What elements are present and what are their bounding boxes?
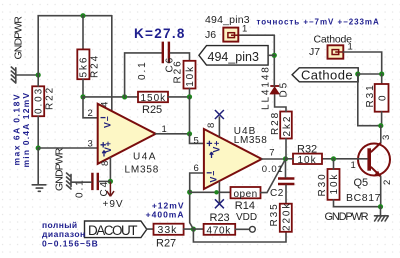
svg-text:Q5: Q5 xyxy=(354,177,369,189)
wire U4A pin8 stub xyxy=(109,158,111,182)
open circle terminal xyxy=(250,226,256,232)
svg-text:R22: R22 xyxy=(45,86,56,110)
svg-text:D5: D5 xyxy=(279,81,290,98)
svg-text:R31: R31 xyxy=(365,83,376,107)
svg-text:BC817: BC817 xyxy=(346,192,381,204)
wire U4B pin8 stub xyxy=(218,117,220,136)
junction V+ node xyxy=(108,179,113,184)
wire R31 bottom xyxy=(381,112,383,126)
svg-text:0.1: 0.1 xyxy=(75,178,86,198)
svg-text:1: 1 xyxy=(351,160,356,171)
wire fb rail to R14 xyxy=(190,191,231,193)
resistor R32 xyxy=(293,144,322,166)
transistor Q5 xyxy=(346,135,393,204)
junction emitter/gnd xyxy=(378,204,383,209)
wire R30 top xyxy=(333,159,335,169)
wire up-left rail xyxy=(38,16,112,75)
svg-text:4: 4 xyxy=(100,102,111,107)
svg-text:494_pin3: 494_pin3 xyxy=(205,14,250,26)
wire C6 left leg xyxy=(125,53,162,97)
connector J7 xyxy=(309,34,353,59)
capacitor C2 xyxy=(262,164,295,199)
svg-text:R30: R30 xyxy=(317,172,328,196)
U4B input minus mark xyxy=(207,172,212,174)
svg-text:2k2: 2k2 xyxy=(282,115,293,137)
U4B V+ arrow xyxy=(210,152,213,158)
resistor R22 xyxy=(32,86,55,116)
svg-text:6: 6 xyxy=(194,163,199,174)
resistor R23 470k xyxy=(204,212,236,236)
op-amp U4A xyxy=(88,102,167,176)
wire R22 bottom xyxy=(37,116,39,148)
wire fb down from pin6 node xyxy=(190,192,194,229)
svg-text:7: 7 xyxy=(269,147,274,158)
svg-text:R35: R35 xyxy=(269,202,280,226)
svg-text:0: 0 xyxy=(378,94,389,101)
wire R24 bottom xyxy=(82,79,84,97)
wire emitter down xyxy=(380,176,382,206)
svg-text:220k: 220k xyxy=(282,202,293,231)
svg-text:LM358: LM358 xyxy=(234,135,268,146)
svg-text:150k: 150k xyxy=(141,93,167,104)
svg-text:R32: R32 xyxy=(297,144,317,156)
resistor R14 open xyxy=(231,187,261,223)
wire gnd to junction xyxy=(16,74,38,76)
svg-text:R23: R23 xyxy=(210,212,230,224)
svg-text:33k: 33k xyxy=(158,224,178,236)
svg-text:VDD: VDD xyxy=(236,212,257,223)
wire C4 left to gnd xyxy=(71,181,91,183)
wire C6 right leg to R26 xyxy=(170,53,189,61)
svg-text:GNDPWR: GNDPWR xyxy=(54,147,66,191)
junction cathode label xyxy=(355,71,360,76)
wire out node down xyxy=(189,97,191,134)
svg-text:0.1: 0.1 xyxy=(137,60,148,80)
svg-text:GNDPWR: GNDPWR xyxy=(13,16,25,60)
junction pin6 node xyxy=(187,190,192,195)
svg-text:0−0.156−5В: 0−0.156−5В xyxy=(42,238,99,248)
resistor R24 xyxy=(77,49,100,79)
wire C2 top xyxy=(285,159,287,177)
capacitor C6 xyxy=(137,42,176,80)
svg-text:2: 2 xyxy=(88,108,93,119)
svg-text:3: 3 xyxy=(88,138,93,149)
svg-text:2: 2 xyxy=(382,180,393,185)
svg-text:V−: V− xyxy=(209,170,219,183)
svg-text:K=27.8: K=27.8 xyxy=(134,26,186,41)
wire J7 down xyxy=(343,52,381,74)
svg-text:10k: 10k xyxy=(329,173,340,195)
svg-text:DACOUT: DACOUT xyxy=(88,223,137,238)
resistor R26 xyxy=(173,59,197,88)
node A junction xyxy=(36,72,41,77)
junction out/pin5 xyxy=(187,131,192,136)
svg-text:max 6A 0.18V: max 6A 0.18V xyxy=(11,93,21,166)
svg-text:GNDPWR: GNDPWR xyxy=(325,211,369,223)
svg-text:open: open xyxy=(234,189,258,200)
wire R28 top L to D5 xyxy=(275,95,286,112)
U4A V+ arrow xyxy=(102,151,105,157)
svg-text:точность +−7mV +−233mA: точность +−7mV +−233mA xyxy=(257,18,380,27)
wire R25 right xyxy=(168,96,190,98)
svg-text:470k: 470k xyxy=(207,225,232,236)
junction bottom node xyxy=(191,227,196,232)
svg-text:3: 3 xyxy=(381,135,392,140)
svg-text:R24: R24 xyxy=(90,54,101,78)
wire in- rail to R25 xyxy=(83,96,138,98)
svg-text:C4: C4 xyxy=(99,180,110,197)
wire R22 top xyxy=(37,75,39,86)
wire D5 top xyxy=(273,35,275,86)
wire bottom long L to R35 xyxy=(193,229,286,242)
svg-text:10k: 10k xyxy=(185,65,196,87)
svg-text:5: 5 xyxy=(194,135,199,146)
global label 494_pin3 xyxy=(199,46,274,66)
svg-text:0.03: 0.03 xyxy=(34,87,45,114)
wire gnd stub xyxy=(380,207,382,216)
svg-text:R14: R14 xyxy=(235,200,255,212)
wire pin7 out xyxy=(262,158,286,160)
junction pin3 xyxy=(36,145,41,150)
junction out node 2 xyxy=(283,156,288,161)
wire cathode rail xyxy=(358,73,382,75)
wire to gnd xyxy=(37,148,39,184)
wire R27 right xyxy=(184,228,194,230)
wire R28 bottom xyxy=(285,139,287,159)
svg-text:C2: C2 xyxy=(270,188,284,199)
svg-text:+9V: +9V xyxy=(103,199,124,210)
wire pin5 xyxy=(190,134,204,144)
junction in- node xyxy=(80,94,85,99)
junction R26/R25 xyxy=(187,94,192,99)
junction C6 branch xyxy=(122,94,127,99)
svg-text:494_pin3: 494_pin3 xyxy=(208,50,259,64)
svg-text:+400mA: +400mA xyxy=(146,210,185,220)
wire bypass L xyxy=(358,74,381,126)
svg-text:0.01: 0.01 xyxy=(262,164,284,175)
svg-text:R25: R25 xyxy=(142,104,162,116)
U4B input plus mark xyxy=(207,141,212,146)
svg-text:U4A: U4A xyxy=(133,152,157,163)
svg-text:Cathode: Cathode xyxy=(301,68,353,83)
wire DACOUT to R27 xyxy=(147,228,154,230)
svg-text:5k6: 5k6 xyxy=(79,56,90,78)
no-connect X pin4 xyxy=(215,199,224,208)
resistor R25 xyxy=(138,92,168,116)
svg-text:LM358: LM358 xyxy=(125,164,160,175)
wire junction to 470k xyxy=(193,228,203,230)
resistor R28 xyxy=(270,111,293,139)
wire pin6 loop xyxy=(190,173,204,192)
svg-text:R28: R28 xyxy=(270,111,281,135)
wire R26 bottom xyxy=(189,89,191,97)
U4A input minus mark xyxy=(101,117,106,119)
wire C4 right xyxy=(99,180,110,182)
svg-text:min 0.4A 12mV: min 0.4A 12mV xyxy=(21,92,31,168)
wire pin2 loop xyxy=(83,97,98,118)
resistor R31 xyxy=(365,83,389,111)
ground GNDPWR bottom-right (hatched) xyxy=(375,216,389,221)
diode D5 xyxy=(261,65,290,110)
junction R31 top xyxy=(379,71,384,76)
wire C2 bottom to R35 xyxy=(285,185,287,204)
junction 494 label xyxy=(272,53,277,58)
power +9V arrow xyxy=(103,181,124,209)
global label DACOUT xyxy=(85,221,147,238)
svg-text:R27: R27 xyxy=(156,237,176,249)
U4A input plus mark xyxy=(101,142,106,147)
wire 470k right open end xyxy=(235,228,249,230)
ground GNDPWR mid (hatched) xyxy=(67,173,72,189)
svg-text:10k: 10k xyxy=(298,155,317,166)
junction R24 top xyxy=(80,13,85,18)
junction collector node xyxy=(378,123,383,128)
wire collector xyxy=(380,126,382,143)
ground bottom of R22 xyxy=(32,185,46,192)
svg-text:8: 8 xyxy=(206,123,217,128)
op-amp U4B xyxy=(194,123,275,189)
wire U4B pin4 stub xyxy=(218,182,220,202)
wire U4A out xyxy=(156,133,190,135)
junction U4B pin4 xyxy=(214,190,218,194)
svg-text:Cathode: Cathode xyxy=(314,34,353,46)
svg-text:R26: R26 xyxy=(173,59,184,83)
resistor R35 xyxy=(269,202,293,232)
svg-text:J6: J6 xyxy=(205,29,216,41)
wire R32 left xyxy=(286,158,294,160)
capacitor C4 xyxy=(75,173,111,198)
resistor R27 xyxy=(154,224,184,250)
svg-text:V+: V+ xyxy=(212,140,222,153)
wire base xyxy=(322,158,367,160)
global label Cathode xyxy=(292,68,358,83)
wire R30 bottom to emitter xyxy=(334,200,381,207)
ground GNDPWR top-left (hatched) xyxy=(11,67,16,83)
wire J6 xyxy=(238,34,274,36)
svg-text:LL4148: LL4148 xyxy=(261,65,272,110)
wire R14 right diag to out xyxy=(261,159,286,193)
svg-text:V−: V− xyxy=(103,115,113,128)
svg-text:8: 8 xyxy=(100,161,111,166)
wire pin3 xyxy=(38,147,97,149)
wire pin4 drop U4A xyxy=(111,16,113,111)
connector J6 xyxy=(205,14,250,42)
wire R24 top xyxy=(82,16,84,50)
no-connect X pin8 xyxy=(215,110,224,119)
svg-text:J7: J7 xyxy=(309,46,320,58)
wire R31 top stub xyxy=(381,74,383,84)
junction base/R30 xyxy=(331,156,336,161)
resistor R30 xyxy=(317,169,340,200)
